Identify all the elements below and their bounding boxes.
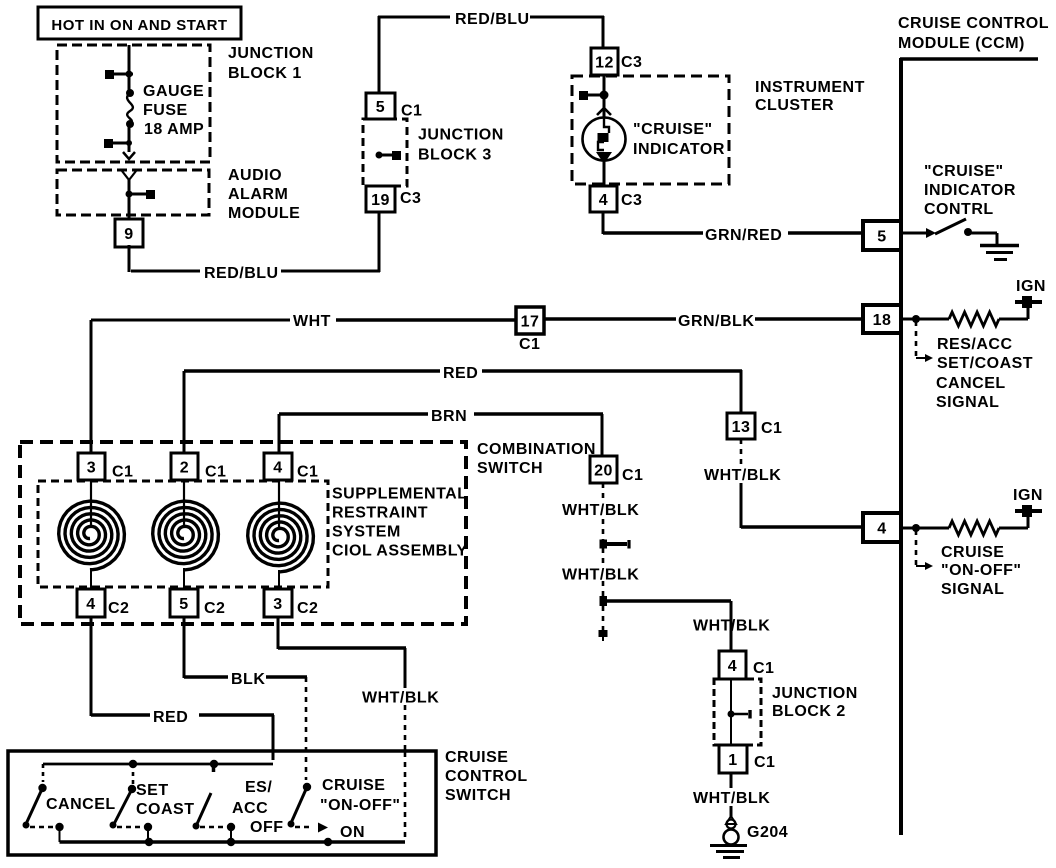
svg-text:CRUISE: CRUISE [941,544,1004,561]
svg-text:18: 18 [873,312,892,329]
svg-text:4: 4 [599,192,608,209]
svg-text:RED: RED [443,365,478,382]
svg-text:CLUSTER: CLUSTER [755,97,834,114]
svg-text:CANCEL: CANCEL [46,796,116,813]
svg-text:HOT IN ON AND START: HOT IN ON AND START [51,17,227,34]
svg-text:"CRUISE": "CRUISE" [633,121,713,138]
svg-text:C3: C3 [621,54,642,71]
svg-text:18 AMP: 18 AMP [144,121,204,138]
svg-text:AUDIO: AUDIO [228,167,282,184]
svg-text:JUNCTION: JUNCTION [418,127,504,144]
svg-text:OFF: OFF [250,819,284,836]
svg-text:COAST: COAST [136,801,195,818]
svg-text:C2: C2 [297,600,318,617]
svg-text:JUNCTION: JUNCTION [228,45,314,62]
svg-text:C1: C1 [112,464,133,481]
svg-text:C1: C1 [761,420,782,437]
svg-text:4: 4 [86,596,95,613]
svg-text:WHT/BLK: WHT/BLK [704,467,781,484]
svg-text:G204: G204 [747,824,788,841]
svg-text:C1: C1 [205,464,226,481]
svg-text:MODULE: MODULE [228,205,300,222]
svg-text:C2: C2 [204,600,225,617]
svg-text:RED: RED [153,709,188,726]
svg-text:2: 2 [180,459,189,476]
svg-text:"ON-OFF": "ON-OFF" [320,797,401,814]
svg-text:WHT/BLK: WHT/BLK [362,690,439,707]
svg-text:C1: C1 [519,336,540,353]
svg-text:BLOCK 2: BLOCK 2 [772,703,846,720]
svg-text:CONTROL: CONTROL [445,768,528,785]
svg-text:C1: C1 [622,467,643,484]
svg-text:BLOCK 1: BLOCK 1 [228,65,302,82]
svg-text:5: 5 [376,99,385,116]
svg-text:3: 3 [87,459,96,476]
svg-text:SYSTEM: SYSTEM [332,524,401,541]
svg-text:WHT: WHT [293,313,331,330]
svg-text:4: 4 [877,520,886,537]
svg-text:SET: SET [136,782,169,799]
svg-text:BLOCK 3: BLOCK 3 [418,147,492,164]
svg-text:SUPPLEMENTAL: SUPPLEMENTAL [332,486,467,503]
svg-text:SET/COAST: SET/COAST [937,355,1033,372]
svg-text:GRN/RED: GRN/RED [705,227,782,244]
svg-text:C1: C1 [753,660,774,677]
svg-text:WHT/BLK: WHT/BLK [562,502,639,519]
svg-text:C3: C3 [400,190,421,207]
svg-text:CONTRL: CONTRL [924,201,994,218]
svg-text:WHT/BLK: WHT/BLK [562,567,639,584]
svg-text:CANCEL: CANCEL [936,375,1006,392]
svg-text:ON: ON [340,824,365,841]
svg-text:WHT/BLK: WHT/BLK [693,618,770,635]
svg-text:RED/BLU: RED/BLU [455,11,530,28]
svg-text:20: 20 [594,462,613,479]
svg-text:SIGNAL: SIGNAL [941,581,1004,598]
svg-text:CRUISE CONTROL: CRUISE CONTROL [898,15,1049,32]
svg-text:ES/: ES/ [245,779,272,796]
svg-text:RED/BLU: RED/BLU [204,265,279,282]
svg-text:RES/ACC: RES/ACC [937,336,1013,353]
svg-text:GAUGE: GAUGE [143,83,204,100]
svg-text:SIGNAL: SIGNAL [936,394,999,411]
svg-text:WHT/BLK: WHT/BLK [693,790,770,807]
svg-text:5: 5 [179,596,188,613]
svg-text:17: 17 [521,313,540,330]
svg-text:INSTRUMENT: INSTRUMENT [755,79,865,96]
svg-text:C2: C2 [108,600,129,617]
svg-text:INDICATOR: INDICATOR [633,141,725,158]
svg-text:3: 3 [273,596,282,613]
svg-text:BLK: BLK [231,671,265,688]
svg-text:INDICATOR: INDICATOR [924,182,1016,199]
svg-text:9: 9 [124,226,133,243]
svg-text:5: 5 [877,228,886,245]
svg-text:C1: C1 [401,103,422,120]
svg-text:COMBINATION: COMBINATION [477,441,596,458]
svg-text:CIOL ASSEMBLY: CIOL ASSEMBLY [332,543,468,560]
svg-text:CRUISE: CRUISE [322,777,385,794]
svg-text:13: 13 [732,419,751,436]
svg-text:"CRUISE": "CRUISE" [924,163,1004,180]
svg-text:C1: C1 [297,464,318,481]
svg-text:"ON-OFF": "ON-OFF" [941,562,1022,579]
svg-text:SWITCH: SWITCH [477,460,543,477]
svg-text:C3: C3 [621,192,642,209]
svg-text:JUNCTION: JUNCTION [772,685,858,702]
svg-text:ACC: ACC [232,800,268,817]
svg-text:12: 12 [595,54,614,71]
svg-text:BRN: BRN [431,408,467,425]
svg-text:4: 4 [728,658,737,675]
svg-text:FUSE: FUSE [143,102,188,119]
svg-text:MODULE (CCM): MODULE (CCM) [898,35,1025,52]
svg-text:19: 19 [371,192,390,209]
svg-text:SWITCH: SWITCH [445,787,511,804]
svg-text:IGN: IGN [1016,278,1046,295]
svg-text:CRUISE: CRUISE [445,749,508,766]
svg-text:IGN: IGN [1013,487,1043,504]
svg-text:C1: C1 [754,754,775,771]
svg-text:4: 4 [273,459,282,476]
svg-text:1: 1 [728,752,737,769]
svg-text:GRN/BLK: GRN/BLK [678,313,754,330]
svg-text:RESTRAINT: RESTRAINT [332,505,428,522]
svg-text:ALARM: ALARM [228,186,288,203]
